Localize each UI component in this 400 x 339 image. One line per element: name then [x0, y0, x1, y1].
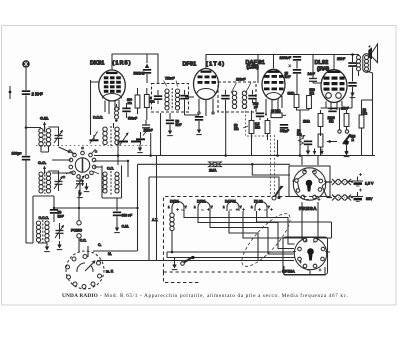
top bus to DL92 — [297, 54, 353, 56]
socket rotor — [77, 263, 93, 272]
coil L8 oscillator — [103, 172, 107, 193]
svg-text:(1T4): (1T4) — [206, 62, 225, 68]
SPINA keyhole — [307, 248, 314, 260]
arrow O.C. — [43, 166, 46, 175]
tube DAF91 top cap — [268, 71, 280, 73]
capacitor under DF91 — [195, 116, 203, 135]
coil L5 oscillator padder — [36, 221, 40, 242]
svg-text:2MA: 2MA — [209, 169, 217, 173]
node bus A x118 — [117, 154, 120, 157]
svg-text:100PF: 100PF — [236, 78, 246, 82]
node bus A x150.7 — [149, 154, 152, 157]
wire DAF91 top bus — [258, 55, 297, 69]
IF transformer T2 dashed box — [218, 82, 256, 112]
wire top link — [49, 127, 59, 175]
capacitor 2KpF — [22, 90, 30, 95]
coil L7b osc top — [103, 123, 119, 148]
ground — [57, 241, 63, 250]
svg-text:SPINA: SPINA — [282, 270, 295, 274]
SPINA connector circle — [294, 237, 326, 269]
wire DL92 top — [333, 55, 335, 70]
svg-text:750PF: 750PF — [165, 77, 175, 81]
wire — [25, 161, 27, 243]
staircase wire W3 — [210, 211, 294, 254]
tube DF91 pins — [199, 99, 213, 117]
wire IF1 bottom drop — [160, 113, 162, 156]
svg-text:MΩ: MΩ — [255, 126, 261, 130]
tube DK91 top cap — [106, 72, 118, 74]
stub terminal left edge — [9, 86, 12, 99]
trimmer capacitor C5 — [55, 223, 64, 239]
twisted pair battery B — [327, 195, 353, 201]
svg-text:O.M.: O.M. — [40, 116, 49, 121]
tube DF91 top cap — [201, 71, 212, 73]
coil L4 — [46, 172, 50, 193]
svg-text:C.C.: C.C. — [80, 239, 86, 243]
wire — [53, 196, 55, 222]
wire switch right y155 bus A start — [94, 155, 375, 157]
svg-text:1000PF: 1000PF — [280, 56, 292, 60]
svg-text:KΩ: KΩ — [310, 92, 315, 96]
capacitor 2KpF — [348, 55, 356, 82]
tube DF91 grid structure — [198, 76, 217, 84]
arrow to R11 — [327, 140, 337, 143]
vertical V3 — [148, 177, 150, 261]
svg-text:O.C.C.: O.C.C. — [93, 116, 103, 120]
resistor R6 — [249, 111, 254, 156]
svg-text:PF: PF — [254, 106, 258, 110]
wires under OM coil — [41, 147, 49, 153]
capacitor 1KpF — [328, 107, 348, 113]
tube DF91 envelope — [194, 69, 219, 100]
tube DL92 grid structure — [324, 77, 345, 91]
PRESA polarity marks — [292, 169, 327, 201]
capacitor 500pF — [122, 103, 137, 121]
battery 90V — [352, 189, 363, 202]
wire to OM coil — [26, 127, 41, 129]
svg-text:FONO: FONO — [71, 229, 82, 233]
coil L3 antenna O.C. — [39, 172, 43, 193]
resistor R3 — [294, 95, 299, 111]
ground filament — [172, 258, 178, 270]
socket arrow — [85, 261, 96, 272]
IF2 coil B — [242, 91, 246, 109]
antenna — [22, 60, 30, 68]
battery 1.5V — [352, 173, 363, 186]
node — [351, 53, 354, 56]
IF2 coil A — [232, 91, 236, 109]
tube DAF91 grid structure — [264, 75, 284, 90]
switch SW1 lever — [343, 134, 351, 145]
svg-text:14PF: 14PF — [308, 72, 315, 76]
node bus A x300 — [299, 154, 302, 157]
trimmer capacitor C8 — [90, 132, 99, 144]
svg-text:KΩ: KΩ — [234, 127, 239, 131]
cable dashed ellipse — [235, 207, 297, 272]
filament DF91 — [194, 202, 213, 212]
svg-text:DF91: DF91 — [183, 62, 197, 68]
svg-text:2KPF: 2KPF — [337, 57, 345, 61]
output transformer secondary coil with shield — [363, 54, 371, 73]
trimmer capacitor C4 — [54, 175, 63, 191]
wire resistor bottoms — [296, 110, 309, 156]
jack FONO top — [77, 221, 81, 225]
svg-text:C.: C. — [98, 243, 101, 247]
tube DAF91 envelope — [262, 69, 285, 99]
tube socket dashed circle — [66, 251, 104, 289]
svg-text:10 MΩ: 10 MΩ — [271, 109, 281, 113]
dashed step bottom left — [164, 272, 201, 283]
wire DK91 top to bus — [112, 54, 158, 83]
wrap wire right of spina — [257, 211, 332, 222]
svg-text:(1S5): (1S5) — [247, 65, 260, 71]
tube DK91 pins — [105, 100, 119, 114]
SPINA contacts — [298, 238, 325, 268]
wire bracket top — [33, 195, 54, 197]
electrolytic 50KpF — [50, 209, 58, 214]
ground — [44, 243, 50, 252]
wire right vertical — [362, 100, 373, 156]
wire x150.7 drop — [150, 133, 152, 156]
capacitor 25KpF — [293, 69, 301, 95]
svg-text:O.M.: O.M. — [122, 225, 129, 229]
tube DL92 envelope — [321, 70, 347, 103]
wire presa top drops — [302, 156, 318, 166]
core dashed — [42, 220, 44, 243]
wire jack down — [78, 238, 80, 252]
ground — [114, 224, 120, 233]
svg-text:A.T.: A.T. — [152, 218, 158, 222]
node — [53, 207, 55, 209]
trimmer capacitor C9 — [120, 132, 129, 145]
svg-text:(1R5): (1R5) — [113, 61, 132, 67]
jack FONO bottom — [77, 234, 81, 238]
svg-text:100pF: 100pF — [12, 152, 22, 156]
wire x118 drop — [117, 141, 119, 165]
coil L7 under DK91 — [115, 104, 119, 122]
tube DAF91 pins — [266, 96, 282, 118]
wire antenna down — [25, 68, 27, 90]
SPINA polarity marks — [293, 240, 328, 272]
svg-text:90V: 90V — [366, 197, 373, 201]
capacitor under IF2 — [248, 90, 256, 103]
oscillator coil frame — [102, 166, 122, 199]
ground trimmer — [137, 144, 143, 153]
wire DK91 grid left — [91, 80, 99, 135]
core dashed — [44, 171, 46, 194]
coil L1 antenna O.M. — [39, 129, 43, 147]
capacitor C bypass — [348, 82, 356, 98]
svg-text:2 KPF: 2 KPF — [32, 92, 44, 97]
switch SW3 — [181, 256, 195, 265]
bus B horizontal — [138, 163, 291, 165]
wire contact up — [339, 108, 341, 130]
node bus A x225.7 — [224, 154, 227, 157]
svg-text:500PF: 500PF — [128, 117, 137, 121]
PRESA plate — [289, 166, 330, 197]
capacitor 50KpF under IF1 — [166, 113, 182, 136]
SPINA plate — [283, 237, 328, 275]
svg-text:KPF: KPF — [285, 75, 291, 79]
wire DF91 top — [206, 55, 258, 84]
capacitor 100pF — [22, 156, 30, 161]
trimmer capacitor C3 — [54, 129, 63, 146]
svg-text:O.C.C.: O.C.C. — [39, 216, 49, 220]
svg-text:DK91: DK91 — [90, 61, 104, 67]
staircase wire W2 — [198, 211, 294, 249]
wire — [25, 95, 27, 155]
capacitor 50KpE with arrow — [143, 54, 151, 83]
wire transformer right down — [359, 71, 373, 100]
trimmer capacitor C10 — [136, 127, 150, 144]
resistor R4 — [307, 96, 312, 111]
IF1 core dashed — [171, 88, 173, 110]
pin feet — [198, 112, 214, 114]
tube DK91 anode arc — [103, 94, 122, 99]
node — [171, 251, 174, 254]
wire switch bottom to fono — [79, 180, 83, 208]
capacitor volume — [304, 141, 312, 156]
PRESA rotor lines — [298, 174, 320, 190]
filament DL92 — [251, 202, 273, 212]
svg-text:KPF: KPF — [58, 215, 64, 219]
rotary switch wafer — [75, 158, 89, 172]
resistor R2 1M — [144, 95, 155, 108]
resistor R10 — [318, 110, 323, 134]
IF2 capacitor — [221, 90, 229, 111]
IF2 adjust zigzag — [231, 83, 237, 94]
wire R bottoms — [138, 88, 147, 120]
resistor R11 420 — [318, 134, 323, 156]
ground under SW1 — [344, 145, 350, 157]
capacitor 600pF — [113, 198, 132, 224]
staircase wire W5 — [243, 211, 332, 238]
wire x277.5 drop — [277, 140, 279, 156]
capacitor 100pF mid — [142, 120, 153, 133]
wire fono bus — [54, 208, 138, 221]
IF2 trimmer arrow — [246, 83, 252, 94]
resistor R5 horizontal — [271, 113, 286, 118]
wire long bus to spina — [97, 260, 294, 262]
ground below switch — [84, 183, 90, 192]
IF1 coil B — [175, 89, 179, 110]
tube DK91 envelope — [99, 70, 126, 101]
resistor R9 — [344, 110, 349, 130]
coil L2 — [46, 129, 50, 147]
switch SW2 lever — [272, 186, 284, 200]
wire switch right mid — [94, 161, 128, 177]
tube DAF91 anode arc — [266, 93, 281, 98]
node — [277, 196, 280, 199]
tube DL92 pins — [326, 101, 342, 110]
resistor R7 — [265, 118, 270, 140]
meter 2MA — [209, 162, 222, 173]
lower left shield bracket — [32, 196, 34, 243]
node — [251, 163, 254, 166]
dashed AVC path — [246, 107, 271, 136]
core dashed — [110, 171, 112, 196]
arrow mark — [289, 65, 292, 68]
node — [127, 160, 129, 162]
vertical V2 — [156, 156, 158, 261]
rotor line — [82, 159, 84, 172]
wire IF2 bottom drop — [225, 111, 227, 156]
tube DF91 anode arc — [197, 89, 215, 94]
svg-text:1,5 V: 1,5 V — [365, 182, 374, 186]
node bus A x277.5 — [276, 154, 279, 157]
dashed gang line — [36, 144, 150, 146]
filament DAF91 — [223, 202, 245, 212]
switch contacts — [63, 147, 97, 178]
PRESA keyhole — [306, 180, 313, 192]
PRESA contacts — [295, 170, 323, 199]
resistor R8 13K — [359, 100, 364, 156]
node — [78, 207, 80, 209]
wire y177 to switch SW2 — [149, 177, 279, 197]
twisted pair battery A — [327, 179, 353, 185]
IF1 capacitor left — [154, 90, 162, 104]
staircase wire W1 — [184, 211, 295, 244]
coil L9 — [115, 172, 119, 193]
capacitor 14pF — [309, 55, 322, 84]
filament dashed box — [164, 197, 337, 273]
resistor R1 100K — [127, 95, 140, 108]
choke coil A.T. — [170, 211, 174, 252]
switch arrows — [66, 149, 99, 174]
vertical V1 — [137, 164, 139, 251]
wire meter branch — [252, 164, 290, 175]
wire switch to coils — [52, 147, 75, 173]
svg-text:UNDA RADIO - Mod. R 65/1 - App: UNDA RADIO - Mod. R 65/1 - Apparecchio p… — [62, 292, 349, 299]
wire transformer left — [353, 55, 359, 57]
node junction — [25, 126, 28, 129]
svg-text:M.: M. — [108, 252, 112, 256]
IF transformer T1 dashed box — [152, 84, 189, 113]
core dashed — [44, 127, 46, 147]
svg-text:O.C.: O.C. — [107, 167, 114, 171]
ground arrows on bus A — [306, 149, 309, 156]
capacitor 300uF — [280, 124, 288, 133]
wire switch right lower — [94, 166, 102, 168]
svg-text:DL92: DL92 — [315, 60, 329, 66]
svg-text:50KPE: 50KPE — [134, 72, 145, 76]
tube DL92 top cap — [328, 71, 341, 74]
trimmer capacitor C11 — [76, 175, 85, 198]
svg-text:KPF: KPF — [176, 123, 182, 127]
capacitor 1000pF — [293, 56, 301, 69]
dashed AVC lines — [270, 135, 272, 196]
filament DK91 — [168, 202, 187, 212]
spina bottom wire — [284, 266, 325, 275]
tube DK91 grid structure — [104, 76, 121, 93]
arrow O.M. — [43, 122, 46, 132]
svg-text:600 PF: 600 PF — [122, 214, 133, 218]
staircase wire W4 — [229, 211, 258, 261]
filament bus bottom — [167, 252, 330, 258]
output transformer primary coil — [357, 56, 361, 71]
svg-text:KΩ: KΩ — [329, 120, 334, 124]
svg-text:O.C.: O.C. — [38, 160, 46, 165]
IF1 capacitor right — [180, 90, 199, 115]
socket pins — [66, 255, 102, 289]
pot zigzag — [299, 135, 306, 145]
wire 1KpF bus — [321, 95, 353, 136]
wire presa bottom to spina — [302, 202, 318, 240]
arrow to 50K — [243, 126, 248, 128]
IF1 coil A — [165, 89, 169, 110]
wire socket to v1 — [88, 246, 137, 257]
wire IF1 to DF91 — [185, 96, 194, 98]
capacitor 500pF — [256, 113, 264, 121]
svg-text:m. F.: m. F. — [106, 270, 113, 274]
wire presa to twisted — [322, 181, 352, 198]
padder dark caps — [119, 141, 140, 143]
speaker — [368, 44, 377, 63]
tube DL92 filament loops — [326, 93, 342, 99]
PRESA connector circle — [293, 168, 325, 200]
coil L6 — [45, 221, 49, 242]
svg-text:1MΩ: 1MΩ — [303, 120, 310, 124]
wire bottom links — [26, 242, 47, 243]
switch SW1 contacts — [338, 130, 349, 133]
